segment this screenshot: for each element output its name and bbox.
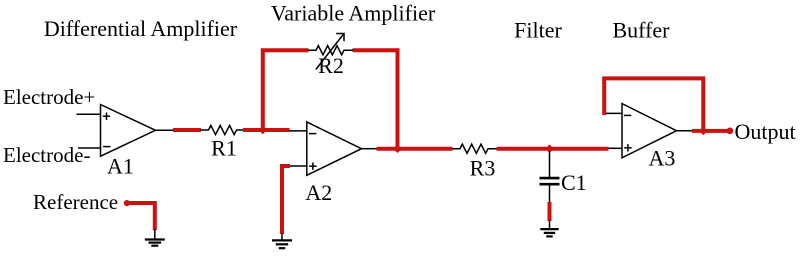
svg-text:Reference: Reference: [33, 190, 118, 214]
wire A2 inverting input lead: [289, 130, 307, 132]
wire red to C1 ground: [548, 202, 552, 221]
wire A3 feedback loop: [604, 78, 703, 132]
wire A3 inverting input lead: [604, 112, 623, 114]
wire feedback right rail: [353, 50, 398, 149]
node junction J1: [259, 126, 268, 135]
ground reference: [145, 230, 165, 246]
svg-text:Differential Amplifier: Differential Amplifier: [44, 16, 238, 41]
wire red to A2 ground: [282, 166, 290, 234]
wire red segment R3 to A3 with junction: [497, 147, 609, 151]
svg-text:R2: R2: [318, 53, 344, 78]
svg-text:R3: R3: [470, 155, 496, 180]
ground A2: [272, 234, 292, 249]
wire red output segment: [692, 129, 730, 133]
svg-text:Filter: Filter: [514, 18, 562, 43]
op-amp A1: [101, 105, 156, 179]
svg-text:Variable Amplifier: Variable Amplifier: [271, 1, 436, 26]
svg-text:R1: R1: [211, 136, 237, 161]
capacitor C1: [540, 151, 587, 203]
svg-text:Buffer: Buffer: [612, 18, 670, 43]
node junction J2: [393, 144, 402, 153]
svg-text:Output: Output: [735, 119, 796, 144]
resistor R1: [200, 125, 244, 160]
node output terminal: [727, 127, 734, 134]
svg-text:Electrode-: Electrode-: [3, 143, 90, 167]
resistor R3: [452, 144, 497, 180]
wire feedback left rail: [263, 50, 309, 132]
node junction J4: [699, 127, 708, 136]
wire A2 output lead: [362, 148, 378, 150]
svg-text:C1: C1: [561, 170, 587, 195]
wire A3 non-inverting input lead: [608, 147, 622, 149]
svg-text:A1: A1: [107, 154, 134, 179]
wire red reference to ground: [127, 203, 155, 230]
svg-text:A3: A3: [649, 145, 676, 170]
wire red segment R1 to A2 with junction: [243, 128, 290, 132]
wire red segment A1 to R1: [173, 128, 201, 132]
wire red segment A2 out to R3 with junction: [377, 147, 453, 151]
node reference terminal: [124, 200, 130, 206]
svg-text:A2: A2: [305, 180, 332, 205]
wire Electrode- lead: [78, 147, 101, 149]
wire Electrode+ lead: [77, 113, 102, 115]
op-amp A3: [622, 104, 677, 171]
wire A1 output lead: [156, 129, 175, 131]
op-amp A2: [305, 122, 361, 205]
wire A3 output lead: [677, 130, 694, 132]
ground C1: [540, 221, 558, 237]
resistor R2 (variable): [308, 34, 354, 79]
wire A2 non-inverting input lead: [288, 165, 307, 167]
node junction J3: [545, 144, 554, 153]
svg-text:Electrode+: Electrode+: [3, 85, 95, 109]
